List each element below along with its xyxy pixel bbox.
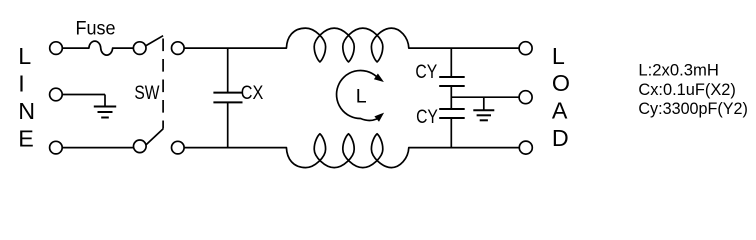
svg-text:I: I (18, 70, 24, 96)
inductor L common-mode choke top winding (286, 28, 408, 62)
svg-text:L: L (356, 86, 367, 108)
wire bottom rail: switch to choke entry (184, 147, 286, 149)
fuse F1 "Fuse" symbol (89, 41, 113, 55)
svg-text:Fuse: Fuse (76, 18, 116, 40)
capacitor CX plates (213, 92, 242, 94)
wire top rail: terminal to fuse (62, 47, 89, 49)
svg-text:SW: SW (134, 83, 159, 104)
capacitor CX vertical lead bottom (227, 102, 229, 147)
node LINE terminal top (phase) (50, 42, 63, 55)
node LINE terminal bottom (neutral) (50, 141, 63, 154)
capacitor CY2 plates (439, 108, 465, 110)
capacitor CY1 lead from top rail (450, 48, 452, 77)
switch SW blade top (146, 36, 163, 46)
capacitor CY1 plates (439, 76, 465, 78)
switch SW pole circle bottom-right (172, 141, 185, 154)
svg-text:L: L (552, 43, 565, 69)
switch SW pole circle bottom-left (134, 140, 147, 153)
inductor L common-mode choke bottom winding (286, 134, 408, 168)
wire earth terminal to ground (62, 94, 105, 96)
wire CY midpoint vertical (450, 86, 452, 109)
node LOAD terminal middle (519, 91, 532, 104)
switch SW blade bottom (146, 129, 163, 145)
switch SW mechanical link (dashed) (162, 39, 164, 129)
wire top rail: fuse to switch pole (113, 47, 134, 49)
wire top rail: switch to choke entry (184, 47, 286, 49)
wire bottom rail: terminal to switch pole (62, 147, 133, 149)
svg-text:L:2x0.3mH: L:2x0.3mH (638, 61, 719, 79)
svg-text:CY: CY (415, 62, 437, 83)
coupling arrowhead top (374, 74, 384, 83)
coupling arrow circle of choke L (337, 71, 377, 121)
svg-text:E: E (18, 125, 34, 151)
svg-text:O: O (552, 70, 570, 96)
capacitor CY2 lead to bottom rail (450, 118, 452, 148)
svg-text:Cy:3300pF(Y2): Cy:3300pF(Y2) (638, 100, 748, 118)
switch SW pole circle top-left (133, 42, 146, 55)
wire top rail: choke exit to LOAD terminal (409, 47, 519, 49)
svg-text:CX: CX (241, 83, 264, 104)
coupling arrowhead bottom (374, 113, 384, 122)
wire CY midpoint to LOAD middle terminal (451, 96, 519, 98)
svg-text:D: D (552, 125, 569, 151)
capacitor CX vertical lead top (227, 48, 229, 93)
node LOAD terminal bottom (519, 141, 532, 154)
ground symbol left (mains earth) (104, 95, 106, 107)
svg-text:N: N (18, 98, 35, 124)
wire bottom rail: choke exit to LOAD terminal (409, 147, 520, 149)
svg-text:L: L (18, 43, 31, 69)
node LINE terminal middle (earth) (50, 88, 63, 101)
node LOAD terminal top (519, 42, 532, 55)
svg-text:Cx:0.1uF(X2): Cx:0.1uF(X2) (638, 81, 736, 99)
svg-text:A: A (552, 98, 568, 124)
ground symbol right (CY midpoint earth) (483, 97, 485, 110)
svg-text:CY: CY (416, 107, 438, 128)
switch SW pole circle top-right (172, 42, 185, 55)
